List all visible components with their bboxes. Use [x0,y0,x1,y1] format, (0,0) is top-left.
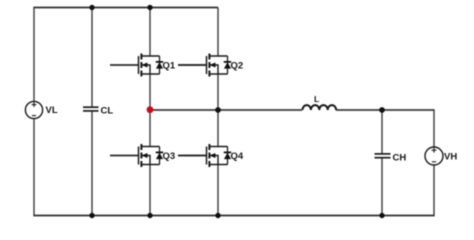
voltage source VL [25,101,42,118]
junction dot top rail at CL [89,5,94,10]
svg-text:CL: CL [101,106,114,117]
svg-text:Q4: Q4 [231,151,244,162]
node A red junction Q1-Q3 mid rail [147,106,154,113]
wire gate link Q1 to Q2 [178,64,206,66]
wire VL top lead [33,7,35,102]
wire Q1 drain lead [149,8,151,57]
wire Q1 source lead [149,74,151,110]
junction dot mid rail at Q2-Q4 [215,107,221,113]
junction dot bottom rail at Q3 [147,213,152,218]
inductor L [303,105,337,110]
junction dot bottom rail at CL [89,213,94,218]
voltage source VH [425,147,443,165]
mosfet Q3 [110,144,163,167]
mosfet Q2 [178,54,231,77]
wire VH top lead [433,109,435,147]
svg-text:Q3: Q3 [163,151,176,162]
svg-text:VH: VH [444,152,457,163]
wire VH bottom lead [433,165,435,216]
wire Q2 source lead [217,74,219,110]
wire gate link Q3 to Q4 [178,155,206,157]
wire top rail [34,7,218,9]
mosfet Q4 [178,144,231,167]
svg-text:L: L [314,94,319,104]
wire mid rail left [150,109,302,111]
wire CH bottom lead [381,158,383,215]
wire Q4 drain lead [217,110,219,147]
wire CH top lead [381,110,383,154]
junction dot bottom rail at CH [379,213,384,218]
junction dot mid rail at CH [379,107,385,113]
wire Q4 source lead [217,165,219,216]
wire VL bottom lead [33,119,35,217]
wire Q2 drain lead [217,8,219,57]
wire Q3 source lead [149,165,151,216]
svg-text:Q1: Q1 [163,61,176,72]
svg-text:CH: CH [393,153,407,164]
junction dot top rail at Q1 [147,5,152,10]
capacitor CH [375,154,391,158]
wire mid rail right [336,109,434,111]
wire bottom rail [34,215,434,217]
wire CL bottom lead [91,111,93,215]
capacitor CL [83,107,99,111]
wire CL top lead [91,8,93,107]
svg-text:Q2: Q2 [231,61,244,72]
wire Q3 drain lead [149,110,151,147]
mosfet Q1 [110,54,163,77]
svg-text:VL: VL [46,105,58,116]
junction dot bottom rail at Q4 [215,213,220,218]
